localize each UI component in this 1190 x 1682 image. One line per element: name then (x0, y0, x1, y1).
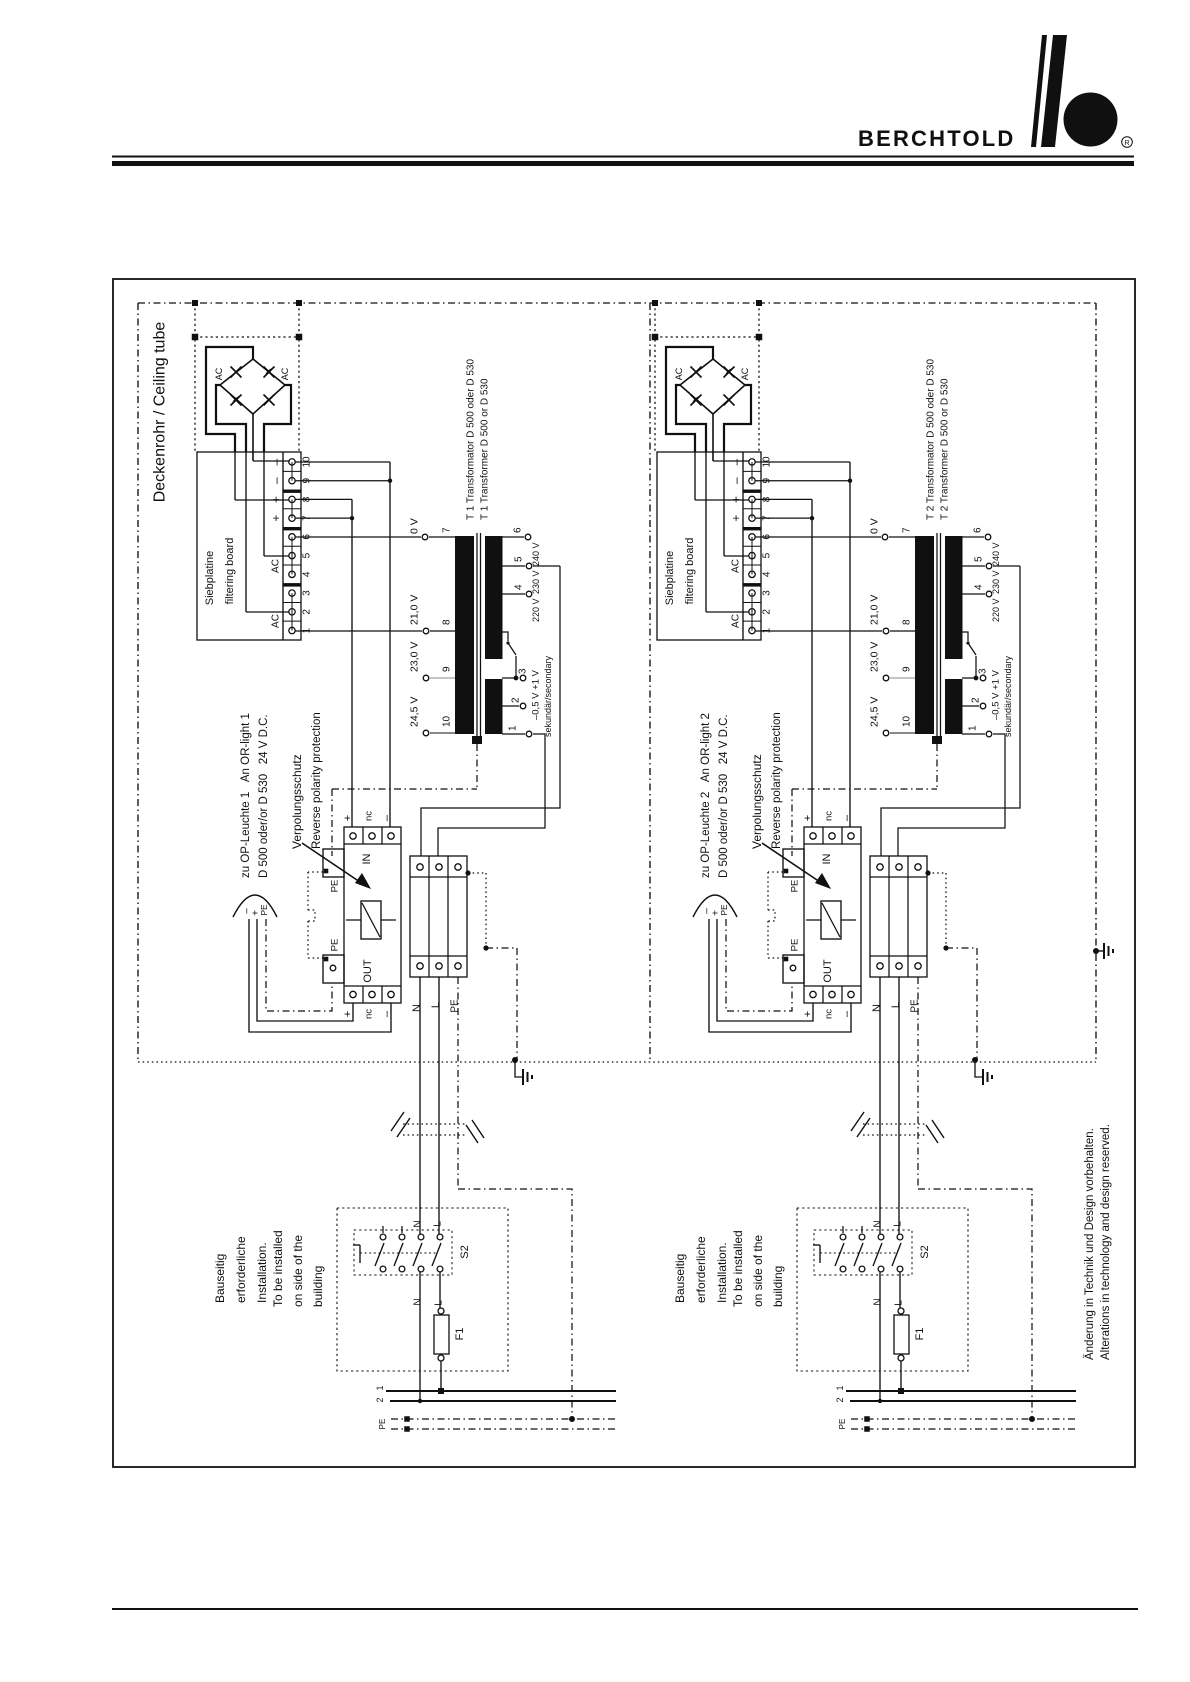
wire pin1 to L circuit 2 (898, 734, 1005, 856)
PE bus lines circuit 2 (851, 1418, 1076, 1420)
terminal 8 circuit 1 (289, 496, 295, 502)
terminal strip circuit 1 (282, 452, 284, 640)
svg-text:L: L (433, 1221, 444, 1227)
earth symbol circuit 1 (512, 1057, 518, 1063)
svg-text:2: 2 (375, 1397, 385, 1402)
terminal 5 circuit 1 (289, 552, 295, 558)
svg-text:on side of the: on side of the (751, 1235, 765, 1307)
svg-text:T 2 Transformator D 500 oder D: T 2 Transformator D 500 oder D 530 (926, 359, 937, 520)
svg-text:240 V: 240 V (991, 542, 1001, 566)
svg-text:–: – (269, 458, 283, 465)
pin 2 circuit 2 (962, 705, 979, 707)
terminal 7 circuit 2 (749, 515, 755, 521)
svg-text:N: N (873, 1298, 884, 1305)
svg-text:nc: nc (823, 1009, 834, 1019)
minus rail wire circuit 2 (849, 462, 851, 827)
module relay symbol circuit 1 (361, 901, 381, 939)
fuse F1 circuit 2 (899, 1272, 901, 1308)
earth symbol on right boundary (1093, 948, 1099, 954)
svg-text:8: 8 (902, 619, 913, 625)
svg-text:N: N (413, 1220, 424, 1227)
wire pin1 to L circuit 1 (438, 734, 545, 856)
terminal 7 circuit 1 (289, 515, 295, 521)
svg-text:on side of the: on side of the (291, 1235, 305, 1307)
core earth dash-dot circuit 1 (476, 744, 478, 789)
svg-text:+: + (342, 815, 354, 821)
svg-text:21,0 V: 21,0 V (869, 595, 881, 625)
svg-text:8: 8 (442, 619, 453, 625)
svg-text:1: 1 (762, 627, 773, 633)
svg-text:–: – (381, 814, 393, 821)
wire terminal8 to plus rail circuit 2 (755, 498, 812, 500)
transformer T1 secondary winding lower (485, 679, 503, 734)
annotation arrow circuit 2 (762, 843, 820, 882)
svg-text:–: – (729, 477, 743, 484)
transformer T2 secondary winding lower (945, 679, 963, 734)
svg-text:erforderliche: erforderliche (694, 1236, 708, 1303)
pin 1 circuit 1 (502, 733, 525, 735)
bus line 2 circuit 1 (390, 1400, 616, 1402)
terminal 9 circuit 2 (749, 477, 755, 483)
logo slash thin (1031, 35, 1047, 147)
tap selector circuit 2 (962, 632, 968, 641)
svg-text:N: N (411, 1004, 423, 1012)
svg-text:D 500 oder/or D 530 24 V D.C: D 500 oder/or D 530 24 V D.C. (718, 714, 730, 878)
module PE dotted link circuit 1 (308, 871, 323, 873)
PE bus lines circuit 1 (391, 1418, 616, 1420)
output connector circuit 2 (693, 895, 737, 917)
svg-text:zu OP-Leuchte 2 An OR-light: zu OP-Leuchte 2 An OR-light 2 (700, 713, 712, 878)
annotation arrow circuit 1 (302, 843, 360, 882)
module bottom terminals circuit 2 (810, 991, 816, 997)
svg-text:T 1 Transformator D 500 oder D: T 1 Transformator D 500 oder D 530 (466, 359, 477, 520)
svg-text:1: 1 (835, 1385, 845, 1390)
minus rail wire circuit 1 (389, 462, 391, 827)
terminal group separators circuit 1 (283, 490, 301, 493)
tap selector circuit 1 (502, 632, 508, 641)
block PE dotted link circuit 1 (465, 870, 470, 875)
svg-text:230 V: 230 V (991, 570, 1001, 594)
svg-text:+: + (802, 1011, 814, 1017)
svg-text:Installation.: Installation. (715, 1242, 729, 1303)
svg-text:23,0 V: 23,0 V (869, 642, 881, 672)
svg-text:L: L (894, 1300, 905, 1306)
filtering board box circuit 1 (197, 452, 301, 640)
svg-text:erforderliche: erforderliche (234, 1236, 248, 1303)
pin 8 circuit 1 (423, 628, 429, 634)
terminal strip circuit 2 (742, 452, 744, 640)
svg-text:9: 9 (442, 666, 453, 672)
svg-text:T 1 Transformer D 500 or D 530: T 1 Transformer D 500 or D 530 (480, 378, 491, 520)
transformer T2 secondary winding upper (945, 536, 963, 659)
svg-text:AC: AC (731, 614, 742, 628)
svg-text:Änderung in Technik und Design: Änderung in Technik und Design vorbehalt… (1084, 1128, 1096, 1360)
svg-text:2: 2 (302, 609, 313, 615)
wire pin5 to N circuit 1 (421, 566, 560, 856)
svg-text:nc: nc (363, 1009, 374, 1019)
figure border (113, 279, 1135, 1467)
svg-text:–0,5 V +1 V: –0,5 V +1 V (530, 669, 541, 720)
wire PE down circuit 1 (457, 977, 459, 1189)
svg-text:5: 5 (974, 556, 985, 562)
logo slash thick (1041, 35, 1067, 147)
wire N to bus circuit 2 (879, 1272, 881, 1401)
svg-text:2: 2 (971, 697, 982, 703)
svg-text:PE: PE (910, 999, 921, 1013)
wire terminal6 to transformer pin7 circuit 1 (295, 536, 421, 538)
wire terminal7 to plus rail circuit 2 (755, 517, 812, 519)
svg-text:D 500 oder/or D 530 24 V D.C: D 500 oder/or D 530 24 V D.C. (258, 714, 270, 878)
svg-text:5: 5 (302, 552, 313, 558)
terminal 4 circuit 2 (749, 571, 755, 577)
svg-text:24,5 V: 24,5 V (869, 697, 881, 727)
wire module plus out circuit 2 (717, 919, 813, 1021)
wire N down circuit 2 (879, 977, 881, 1234)
terminal link wires circuit 2 (751, 462, 753, 481)
fuse F1 circuit 1 (439, 1272, 441, 1308)
pin 6 circuit 1 (502, 536, 524, 538)
pin 6 circuit 2 (962, 536, 984, 538)
svg-text:7: 7 (442, 527, 453, 533)
svg-text:PE: PE (719, 904, 729, 916)
wire terminal10 to minus rail circuit 1 (295, 461, 390, 463)
bridge wire AC2 circuit 1 (264, 385, 291, 452)
logo circle (1064, 93, 1118, 147)
terminal link wires circuit 1 (291, 462, 293, 481)
svg-text:5: 5 (514, 556, 525, 562)
svg-text:F1: F1 (454, 1328, 466, 1341)
bridge rectifier circuit 2 (680, 359, 745, 414)
wire pin5 to N circuit 2 (881, 566, 1020, 856)
svg-text:AC: AC (731, 559, 742, 573)
svg-text:–0,5 V +1 V: –0,5 V +1 V (990, 669, 1001, 720)
pin 9 circuit 2 (883, 675, 889, 681)
pin 3 circuit 2 (980, 675, 986, 681)
svg-text:PE: PE (838, 1419, 847, 1430)
svg-text:220 V: 220 V (531, 598, 541, 622)
bridge rectifier circuit 1 (220, 359, 285, 414)
terminal 9 circuit 1 (289, 477, 295, 483)
pin 4 circuit 2 (962, 593, 985, 595)
terminal 4 circuit 1 (289, 571, 295, 577)
module PE lug bottom circuit 2 (783, 955, 804, 983)
bus line 1 circuit 2 (846, 1390, 1076, 1392)
transformer T2 primary winding (915, 536, 934, 734)
svg-text:To be installed: To be installed (731, 1230, 745, 1307)
bus line 2 circuit 2 (850, 1400, 1076, 1402)
svg-text:building: building (771, 1266, 785, 1307)
svg-text:0 V: 0 V (409, 518, 421, 534)
svg-text:+: + (802, 815, 814, 821)
wire terminal1 to transformer pin8 circuit 2 (755, 630, 882, 632)
terminal 6 circuit 1 (289, 534, 295, 540)
wire fuse to bus circuit 1 (440, 1361, 442, 1391)
ceiling tube boundary top (138, 302, 1096, 304)
terminal 3 circuit 2 (749, 590, 755, 596)
pin 9 circuit 1 (423, 675, 429, 681)
mains terminal block circuit 1 (410, 856, 467, 977)
svg-text:building: building (311, 1266, 325, 1307)
svg-text:filtering board: filtering board (684, 538, 696, 605)
svg-text:L: L (434, 1300, 445, 1306)
svg-text:240 V: 240 V (531, 542, 541, 566)
terminal 1 circuit 2 (749, 627, 755, 633)
polarity module U1 body (344, 827, 401, 1003)
svg-text:4: 4 (302, 571, 313, 577)
wire terminal9 to minus rail circuit 2 (755, 480, 850, 482)
earth symbol circuit 2 (972, 1057, 978, 1063)
wire PE down circuit 2 (917, 977, 919, 1189)
svg-text:–: – (841, 814, 853, 821)
module PE lug top circuit 1 (323, 849, 344, 877)
svg-text:9: 9 (902, 666, 913, 672)
module PE lug bottom circuit 1 (323, 955, 344, 983)
svg-text:4: 4 (762, 571, 773, 577)
bridge wire minus circuit 1 (206, 347, 253, 452)
wire terminal1 to transformer pin8 circuit 1 (295, 630, 422, 632)
output connector circuit 1 (233, 895, 277, 917)
svg-text:S2: S2 (919, 1245, 931, 1258)
bridge wire plus circuit 2 (712, 414, 714, 461)
svg-text:zu OP-Leuchte 1 An OR-light: zu OP-Leuchte 1 An OR-light 1 (240, 713, 252, 878)
svg-text:IN: IN (361, 853, 373, 864)
bridge wire AC1 circuit 1 (216, 385, 246, 452)
module PE dotted link circuit 2 (768, 871, 783, 873)
svg-text:0 V: 0 V (869, 518, 881, 534)
svg-text:AC: AC (271, 559, 282, 573)
terminal 3 circuit 1 (289, 590, 295, 596)
terminal 2 circuit 1 (289, 609, 295, 615)
svg-text:Deckenrohr / Ceiling tube: Deckenrohr / Ceiling tube (152, 322, 169, 503)
module PE lug top circuit 2 (783, 849, 804, 877)
svg-text:1: 1 (508, 725, 519, 731)
wire terminal6 to transformer pin7 circuit 2 (755, 536, 881, 538)
svg-text:21,0 V: 21,0 V (409, 595, 421, 625)
wire module minus out circuit 2 (709, 919, 851, 1032)
svg-text:Siebplatine: Siebplatine (204, 551, 216, 605)
svg-text:10: 10 (902, 715, 913, 727)
bridge wire AC1 circuit 2 (676, 385, 706, 452)
wire module minus out circuit 1 (249, 919, 391, 1032)
bridge compartment dotted box circuit 1 (194, 303, 196, 452)
svg-text:Reverse polarity protection: Reverse polarity protection (311, 712, 323, 849)
svg-text:+: + (729, 496, 743, 503)
svg-text:To be installed: To be installed (271, 1230, 285, 1307)
svg-text:4: 4 (514, 584, 525, 590)
svg-text:Bauseitig: Bauseitig (673, 1254, 687, 1303)
pin 2 circuit 1 (502, 705, 519, 707)
svg-text:3: 3 (302, 590, 313, 596)
svg-text:IN: IN (821, 853, 833, 864)
svg-text:1: 1 (375, 1385, 385, 1390)
svg-text:3: 3 (518, 668, 529, 674)
svg-text:Verpolungsschutz: Verpolungsschutz (750, 754, 764, 849)
wire L down circuit 2 (898, 977, 900, 1234)
wire N to bus circuit 1 (419, 1272, 421, 1401)
svg-text:AC: AC (280, 367, 290, 380)
module relay symbol circuit 2 (821, 901, 841, 939)
svg-text:S2: S2 (459, 1245, 471, 1258)
svg-text:L: L (890, 1002, 902, 1008)
svg-text:L: L (430, 1002, 442, 1008)
terminal 8 circuit 2 (749, 496, 755, 502)
terminal group separators circuit 2 (743, 490, 761, 493)
pin 1 circuit 2 (962, 733, 985, 735)
terminal 6 circuit 2 (749, 534, 755, 540)
svg-text:AC: AC (214, 367, 224, 380)
svg-text:PE: PE (329, 939, 340, 952)
svg-text:PE: PE (450, 999, 461, 1013)
svg-text:N: N (873, 1220, 884, 1227)
transformer T1 core (476, 533, 478, 740)
wire N down circuit 1 (419, 977, 421, 1234)
ceiling tube boundary bottom (138, 1061, 1096, 1063)
svg-text:+: + (269, 515, 283, 522)
bridge wire minus circuit 2 (666, 347, 713, 452)
bridge compartment dotted box circuit 2 (654, 303, 656, 452)
svg-text:PE: PE (789, 880, 800, 893)
svg-text:R: R (1124, 140, 1129, 147)
plus rail wire circuit 1 (351, 499, 353, 827)
pin 10 circuit 2 (883, 730, 889, 736)
cable break symbol circuit 2 (863, 1123, 927, 1125)
svg-text:PE: PE (789, 939, 800, 952)
terminal 2 circuit 2 (749, 609, 755, 615)
pin 5 circuit 1 (502, 565, 525, 567)
svg-text:+: + (269, 496, 283, 503)
svg-text:23,0 V: 23,0 V (409, 642, 421, 672)
svg-text:1: 1 (968, 725, 979, 731)
transformer T1 primary winding (455, 536, 474, 734)
core earth dash-dot circuit 2 (936, 744, 938, 789)
switch S2 circuit 2 (814, 1230, 912, 1275)
header double rule (112, 156, 1134, 158)
pin 3 circuit 1 (520, 675, 526, 681)
terminal 1 circuit 1 (289, 627, 295, 633)
wire L down circuit 1 (438, 977, 440, 1234)
wire fuse to bus circuit 2 (900, 1361, 902, 1391)
plus rail wire circuit 2 (811, 499, 813, 827)
ceiling tube divider (649, 303, 651, 1062)
svg-text:Installation.: Installation. (255, 1242, 269, 1303)
transformer T2 core (936, 533, 938, 740)
module bottom terminals circuit 1 (350, 991, 356, 997)
switch linkage circuit 2 (813, 1244, 820, 1246)
module top terminals circuit 1 (350, 833, 356, 839)
svg-text:230 V: 230 V (531, 570, 541, 594)
svg-text:+: + (342, 1011, 354, 1017)
polarity module U2 body (804, 827, 861, 1003)
svg-text:PE: PE (329, 880, 340, 893)
svg-text:–: – (729, 458, 743, 465)
svg-text:24,5 V: 24,5 V (409, 697, 421, 727)
svg-text:F1: F1 (914, 1328, 926, 1341)
svg-text:2: 2 (511, 697, 522, 703)
pin 10 circuit 1 (423, 730, 429, 736)
switch linkage circuit 1 (353, 1244, 360, 1246)
svg-text:3: 3 (978, 668, 989, 674)
svg-text:N: N (413, 1298, 424, 1305)
svg-text:N: N (871, 1004, 883, 1012)
svg-text:AC: AC (271, 614, 282, 628)
svg-text:2: 2 (762, 609, 773, 615)
svg-text:filtering board: filtering board (224, 538, 236, 605)
svg-text:AC: AC (674, 367, 684, 380)
svg-text:Siebplatine: Siebplatine (664, 551, 676, 605)
svg-text:sekundär/secondary: sekundär/secondary (1003, 655, 1013, 737)
svg-text:T 2 Transformer D 500 or D 530: T 2 Transformer D 500 or D 530 (940, 378, 951, 520)
svg-text:2: 2 (835, 1397, 845, 1402)
terminal 5 circuit 2 (749, 552, 755, 558)
wire terminal7 to plus rail circuit 1 (295, 517, 352, 519)
svg-text:5: 5 (762, 552, 773, 558)
svg-text:Bauseitig: Bauseitig (213, 1254, 227, 1303)
svg-text:7: 7 (902, 527, 913, 533)
svg-text:220 V: 220 V (991, 598, 1001, 622)
wire module plus out circuit 1 (257, 919, 353, 1021)
terminal 10 circuit 2 (749, 459, 755, 465)
svg-text:+: + (729, 515, 743, 522)
svg-text:PE: PE (378, 1419, 387, 1430)
svg-text:3: 3 (762, 590, 773, 596)
svg-text:10: 10 (442, 715, 453, 727)
svg-text:nc: nc (363, 811, 374, 821)
terminal 10 circuit 1 (289, 459, 295, 465)
wire module PE out circuit 2 (726, 919, 792, 1011)
svg-text:AC: AC (740, 367, 750, 380)
svg-text:OUT: OUT (822, 959, 834, 983)
svg-text:4: 4 (974, 584, 985, 590)
module top terminals circuit 2 (810, 833, 816, 839)
svg-text:nc: nc (823, 811, 834, 821)
pin 7 circuit 1 (422, 534, 428, 540)
svg-text:BERCHTOLD: BERCHTOLD (858, 126, 1016, 151)
wire module PE out circuit 1 (266, 919, 332, 1011)
mains terminal block circuit 2 (870, 856, 927, 977)
svg-text:6: 6 (973, 527, 984, 533)
ceiling tube boundary right (1095, 303, 1097, 1062)
svg-text:OUT: OUT (362, 959, 374, 983)
pin 4 circuit 1 (502, 593, 525, 595)
filtering board box circuit 2 (657, 452, 761, 640)
registered trademark (1122, 137, 1133, 148)
svg-text:1: 1 (302, 627, 313, 633)
bridge wire AC2 circuit 2 (724, 385, 751, 452)
pin 5 circuit 2 (962, 565, 985, 567)
svg-text:6: 6 (513, 527, 524, 533)
building installation dotted box circuit 2 (797, 1208, 968, 1371)
cable break symbol circuit 1 (403, 1123, 467, 1125)
pin 8 circuit 2 (883, 628, 889, 634)
footer rule (112, 1608, 1138, 1610)
svg-text:Reverse polarity protection: Reverse polarity protection (771, 712, 783, 849)
wire terminal8 to plus rail circuit 1 (295, 498, 352, 500)
building installation dotted box circuit 1 (337, 1208, 508, 1371)
svg-text:Verpolungsschutz: Verpolungsschutz (290, 754, 304, 849)
transformer T1 secondary winding upper (485, 536, 503, 659)
svg-text:sekundär/secondary: sekundär/secondary (543, 655, 553, 737)
wire terminal9 to minus rail circuit 1 (295, 480, 390, 482)
svg-text:L: L (893, 1221, 904, 1227)
svg-text:PE: PE (259, 904, 269, 916)
switch S2 circuit 1 (354, 1230, 452, 1275)
wire terminal10 to minus rail circuit 2 (755, 461, 850, 463)
ceiling tube boundary left (137, 303, 139, 1062)
bridge wire plus circuit 1 (252, 414, 254, 461)
block PE dotted link circuit 2 (925, 870, 930, 875)
svg-text:–: – (269, 477, 283, 484)
svg-text:Alterations in technology and: Alterations in technology and design res… (1100, 1124, 1112, 1360)
